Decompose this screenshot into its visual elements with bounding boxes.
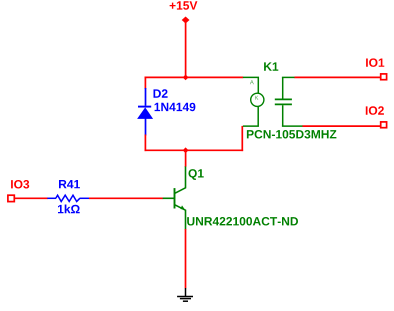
junction top rail <box>183 75 189 81</box>
label UNR422100ACT-ND <box>187 217 298 226</box>
label R41 <box>59 180 80 188</box>
wire IO1 <box>295 76 381 78</box>
junction bottom rail <box>183 147 189 153</box>
wire top rail <box>145 76 244 78</box>
wire bottom rail <box>145 149 244 151</box>
port IO1 <box>381 74 387 80</box>
label IO3 <box>11 180 29 189</box>
label Q1 <box>189 169 204 180</box>
wire IO2 <box>303 125 381 127</box>
relay K1 coil <box>243 77 264 126</box>
wire IO3 to R41 <box>15 197 48 199</box>
wire emitter to ground <box>185 229 187 288</box>
port IO2 <box>381 122 387 128</box>
label IO2 <box>366 106 384 115</box>
wire right branch to coil <box>241 126 243 151</box>
label IO1 <box>366 58 384 67</box>
diode D2 <box>137 88 153 136</box>
relay K1 contact <box>275 77 303 126</box>
ground <box>177 288 193 301</box>
pin label A <box>250 80 254 84</box>
wire +15V supply vertical <box>185 20 187 77</box>
resistor R41 <box>47 195 89 201</box>
port IO3 <box>8 195 14 201</box>
pin label K <box>255 96 258 100</box>
label +15V <box>170 1 198 9</box>
label 1kΩ <box>58 205 80 214</box>
wire left branch upper <box>144 77 146 89</box>
label K1 <box>264 62 278 70</box>
wire R41 to Q1 base <box>89 197 163 199</box>
label D2 <box>154 89 168 97</box>
label 1N4149 <box>155 103 196 112</box>
wire collector <box>185 150 187 167</box>
power +15V <box>182 17 190 24</box>
wire left branch lower <box>144 135 146 152</box>
transistor Q1 <box>163 166 186 230</box>
label PCN-105D3MHZ <box>247 130 337 139</box>
